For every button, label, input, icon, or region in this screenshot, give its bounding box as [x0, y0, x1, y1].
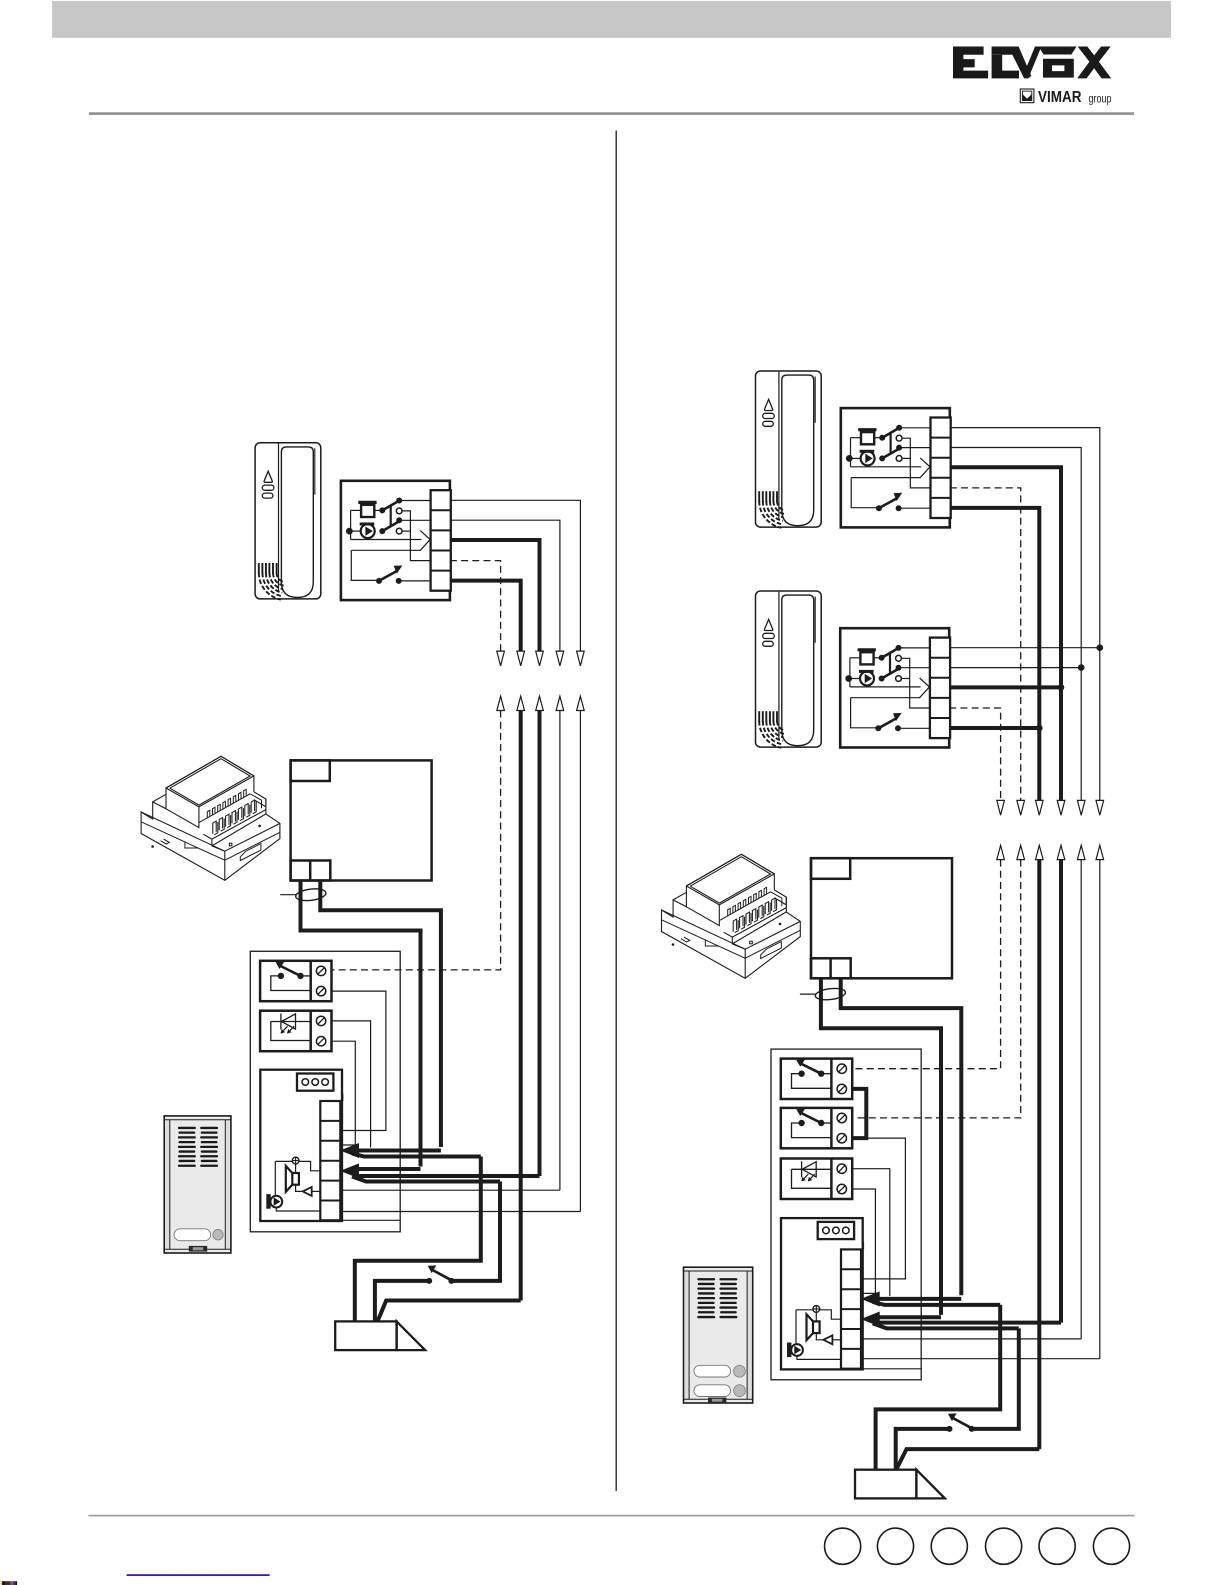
- svg-text:group: group: [1089, 92, 1112, 106]
- svg-text:VIMAR: VIMAR: [1038, 89, 1082, 106]
